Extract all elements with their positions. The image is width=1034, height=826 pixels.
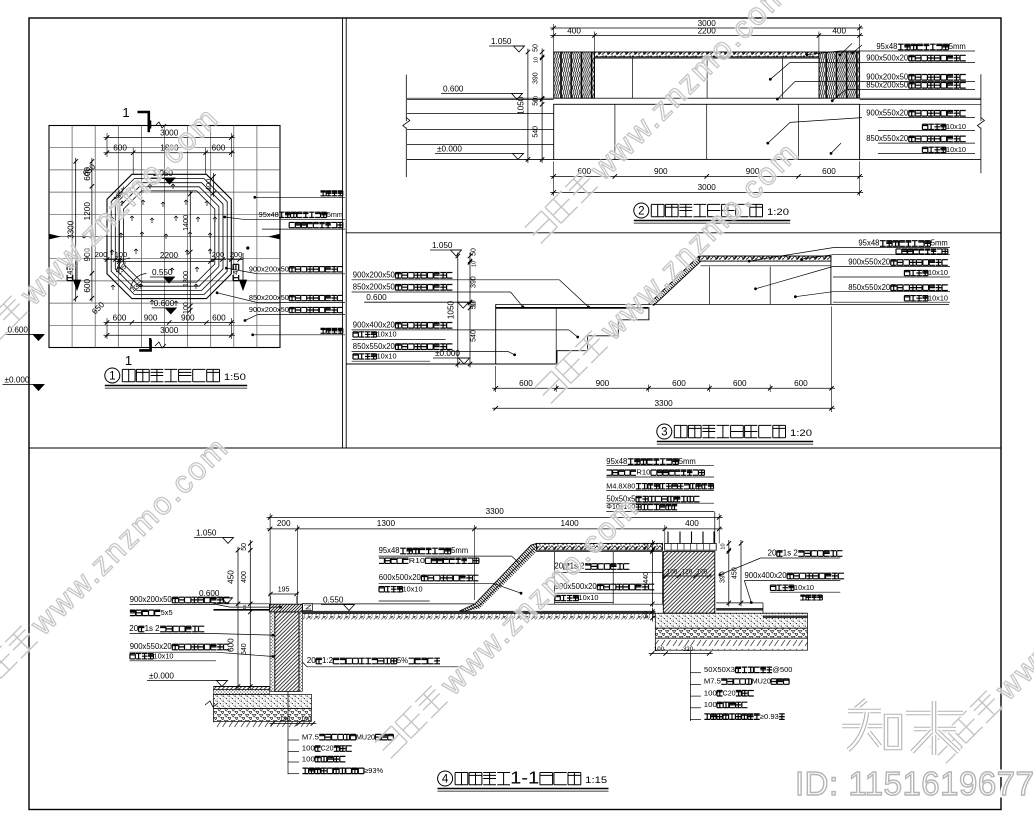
sec top dims	[267, 516, 723, 518]
svg-text:900x200x50: 900x200x50	[249, 305, 289, 314]
svg-text:0.600: 0.600	[443, 84, 464, 93]
small leader dots top right wood block	[839, 54, 842, 57]
svg-text:600: 600	[113, 313, 127, 322]
side bottom dims	[492, 387, 835, 389]
svg-text:900x200x50: 900x200x50	[353, 271, 396, 280]
svg-text:R10: R10	[636, 468, 650, 477]
svg-text:850x550x20: 850x550x20	[353, 342, 396, 351]
svg-text:20: 20	[307, 656, 317, 665]
svg-text:@500: @500	[772, 665, 792, 674]
svg-text:95x48: 95x48	[379, 546, 400, 555]
svg-text:5mm: 5mm	[451, 546, 468, 555]
svg-text:100: 100	[667, 569, 678, 576]
svg-text:10x10: 10x10	[377, 352, 397, 361]
sec pier planks comb	[665, 543, 717, 550]
svg-text:10x10: 10x10	[579, 593, 599, 602]
svg-text:400: 400	[685, 519, 699, 528]
plan left outside levels	[33, 335, 44, 341]
svg-text:600: 600	[83, 167, 92, 181]
svg-text:20: 20	[768, 549, 778, 558]
svg-text:600: 600	[212, 144, 226, 153]
svg-text:1s 2: 1s 2	[145, 624, 160, 633]
svg-text:1s 2: 1s 2	[783, 549, 798, 558]
svg-text:2: 2	[638, 204, 644, 217]
svg-text:540: 540	[471, 330, 478, 342]
svg-text:5mm: 5mm	[327, 210, 343, 219]
plan paving grid	[71, 126, 73, 348]
side elev ground line	[346, 363, 557, 365]
elev break line left	[405, 75, 407, 121]
svg-text:5mm: 5mm	[931, 239, 948, 248]
plan right leader annotations	[253, 196, 256, 199]
svg-text:1.050: 1.050	[432, 241, 453, 250]
front elevation title	[634, 203, 649, 218]
svg-text:1400: 1400	[181, 215, 190, 231]
watermark tiles	[0, 99, 226, 373]
svg-text:≥93%: ≥93%	[364, 766, 383, 775]
plan title	[105, 368, 120, 383]
svg-text:100: 100	[654, 646, 665, 653]
svg-text:1:50: 1:50	[224, 372, 246, 382]
sec left vertical chains	[237, 547, 239, 690]
svg-text:600: 600	[519, 379, 533, 388]
svg-text:600: 600	[822, 167, 836, 176]
svg-text:3300: 3300	[486, 507, 505, 516]
plan inner vertical dims	[213, 173, 215, 197]
svg-text:600: 600	[83, 279, 92, 293]
svg-text:100: 100	[704, 688, 717, 697]
sec pier inner dim 100 120 100	[662, 575, 713, 577]
svg-text:390: 390	[720, 571, 727, 583]
svg-text:900x550x20: 900x550x20	[848, 258, 891, 267]
svg-text:900x550x20: 900x550x20	[130, 642, 173, 651]
plan edge axis arrows	[49, 234, 61, 240]
svg-text:95x48: 95x48	[876, 42, 897, 51]
svg-text:400: 400	[832, 26, 846, 35]
sec wall body	[275, 612, 299, 692]
plan view paving square	[49, 126, 280, 348]
svg-text:±0.000: ±0.000	[435, 349, 460, 358]
svg-text:100: 100	[704, 700, 717, 709]
plan corner arcs 135 deg	[113, 187, 124, 200]
side bench body	[495, 304, 497, 364]
svg-text:10: 10	[721, 543, 727, 549]
sec ramp band	[460, 543, 537, 611]
svg-text:MU20: MU20	[752, 677, 771, 686]
elev wood plank top band	[595, 52, 820, 57]
svg-text:900x400x20: 900x400x20	[745, 571, 788, 580]
svg-text:600: 600	[794, 379, 808, 388]
svg-text:1050: 1050	[446, 300, 455, 319]
plan mid small dims	[104, 259, 123, 261]
svg-text:0.600: 0.600	[199, 589, 220, 598]
svg-text:0.600: 0.600	[366, 293, 387, 302]
svg-text:1:15: 1:15	[585, 775, 607, 785]
elev levels	[514, 46, 525, 52]
svg-text:10: 10	[472, 300, 478, 306]
svg-text:850x550x20: 850x550x20	[866, 134, 909, 143]
svg-text:450: 450	[227, 570, 236, 584]
svg-text:C20: C20	[321, 744, 334, 753]
svg-text:200: 200	[277, 519, 291, 528]
plan left dim chains	[91, 158, 93, 302]
plan inner horizontal dim 2200	[116, 261, 214, 263]
svg-text:1: 1	[125, 353, 132, 368]
svg-text:10: 10	[534, 96, 540, 102]
svg-text:900x550x20: 900x550x20	[866, 109, 909, 118]
sec pier bolts	[667, 532, 669, 544]
svg-text:200: 200	[230, 250, 243, 259]
svg-text:95x48: 95x48	[606, 457, 627, 466]
sec levels	[223, 537, 234, 543]
svg-text:100: 100	[302, 744, 315, 753]
svg-text:3300: 3300	[654, 399, 673, 408]
sec plateau joints	[554, 552, 556, 604]
sec pier foundation layers	[655, 613, 807, 628]
svg-text:600: 600	[733, 379, 747, 388]
side levels	[451, 250, 462, 256]
elev mid band joints	[595, 58, 820, 98]
svg-text:10: 10	[472, 261, 478, 267]
svg-text:±0.000: ±0.000	[5, 376, 30, 385]
svg-text:540: 540	[241, 643, 248, 655]
svg-text:10x10: 10x10	[946, 122, 966, 131]
svg-text:10x10: 10x10	[928, 293, 948, 302]
svg-text:900x400x20: 900x400x20	[353, 321, 396, 330]
svg-text:3: 3	[661, 425, 667, 438]
svg-text:4: 4	[442, 772, 449, 785]
svg-text:10: 10	[534, 57, 540, 63]
svg-text:5%: 5%	[397, 656, 408, 665]
svg-text:900x200x50: 900x200x50	[249, 264, 289, 273]
svg-text:1-1: 1-1	[510, 769, 539, 788]
svg-text:100: 100	[697, 569, 708, 576]
sec right steps	[716, 602, 763, 604]
sec plateau ground continuation	[537, 603, 664, 605]
svg-text:50: 50	[644, 543, 650, 549]
side ramp band	[648, 256, 699, 304]
elev left wood block	[554, 52, 595, 98]
svg-text:1:20: 1:20	[790, 428, 812, 438]
svg-text:850x200x50: 850x200x50	[353, 283, 396, 292]
svg-text:1: 1	[109, 369, 115, 382]
elev break line right	[980, 74, 982, 121]
svg-text:100: 100	[302, 754, 315, 763]
svg-text:850x200x50: 850x200x50	[866, 81, 909, 90]
svg-text:R10: R10	[409, 556, 425, 565]
svg-text:540: 540	[533, 126, 540, 138]
side left vertical dims	[457, 253, 459, 368]
svg-text:10x10: 10x10	[154, 651, 174, 660]
svg-text:1400: 1400	[560, 519, 579, 528]
svg-text:1:20: 1:20	[767, 207, 789, 217]
sec plateau band	[537, 543, 663, 550]
svg-text:20: 20	[129, 624, 139, 633]
svg-text:120: 120	[682, 569, 693, 576]
svg-text:M7.5: M7.5	[302, 732, 319, 741]
sec drain box	[303, 604, 313, 611]
svg-text:200: 200	[212, 250, 225, 259]
svg-text:50: 50	[241, 543, 248, 551]
svg-text:10x10: 10x10	[794, 583, 814, 592]
svg-text:400: 400	[204, 179, 213, 191]
elev plinth	[554, 104, 860, 159]
elev top dims	[550, 27, 863, 29]
svg-text:1300: 1300	[181, 271, 190, 287]
svg-text:390: 390	[471, 276, 478, 288]
sec left paving lines	[214, 603, 270, 605]
svg-text:600: 600	[113, 144, 127, 153]
plan plant arrows	[148, 184, 152, 189]
svg-text:10x10: 10x10	[928, 268, 948, 277]
svg-text:95x48: 95x48	[259, 210, 279, 219]
sec pier body	[663, 552, 715, 614]
svg-text:95x48: 95x48	[858, 239, 879, 248]
plan top dims	[104, 137, 235, 139]
elev ground lines left	[407, 97, 554, 99]
svg-text:390: 390	[533, 72, 540, 84]
svg-text:400: 400	[567, 26, 581, 35]
svg-text:600: 600	[672, 379, 686, 388]
svg-text:±0.000: ±0.000	[437, 144, 462, 153]
svg-text:5mm: 5mm	[949, 42, 966, 51]
svg-text:900: 900	[596, 379, 610, 388]
svg-text:50X50X3: 50X50X3	[704, 665, 735, 674]
svg-text:900x200x50: 900x200x50	[130, 595, 173, 604]
sec right paving	[313, 603, 475, 605]
svg-text:600: 600	[212, 313, 226, 322]
svg-text:1.050: 1.050	[491, 37, 512, 46]
svg-text:5x5: 5x5	[161, 608, 173, 617]
svg-text:≥0.93: ≥0.93	[760, 712, 779, 721]
svg-text:0.600: 0.600	[154, 299, 175, 308]
side plateau band	[699, 256, 831, 261]
sec left legend	[287, 691, 289, 774]
svg-text:2200: 2200	[160, 251, 179, 260]
svg-text:195: 195	[278, 587, 290, 594]
svg-text:10x10: 10x10	[377, 330, 397, 339]
elev bottom dims	[550, 175, 863, 177]
svg-text:3000: 3000	[698, 183, 717, 192]
svg-text:100: 100	[301, 716, 312, 723]
svg-text:MU20: MU20	[356, 732, 375, 741]
svg-text:100: 100	[115, 250, 128, 259]
plan bottom dims	[104, 322, 235, 324]
svg-text:50: 50	[471, 248, 478, 256]
svg-text:ID: 1151619677: ID: 1151619677	[795, 765, 1034, 802]
sec wall cap	[270, 604, 303, 612]
elev right wood block	[819, 52, 860, 98]
side steps	[557, 307, 649, 364]
elev ground lines right	[860, 97, 981, 99]
svg-text:M7.5: M7.5	[704, 677, 721, 686]
sec right legend	[689, 651, 691, 721]
svg-text:850x200x50: 850x200x50	[249, 293, 289, 302]
svg-text:850x550x20: 850x550x20	[848, 283, 891, 292]
svg-text:1300: 1300	[377, 519, 396, 528]
svg-text:320: 320	[683, 646, 694, 653]
side ground line right	[648, 303, 949, 305]
sec wall 195 dim	[269, 593, 299, 595]
viewport dividers	[342, 18, 344, 448]
flower-bed octagon seat rings	[107, 174, 231, 298]
svg-text:10x10: 10x10	[946, 145, 966, 154]
svg-text:5mm: 5mm	[679, 457, 696, 466]
svg-text:1:2: 1:2	[322, 656, 333, 665]
svg-text:900: 900	[144, 313, 158, 322]
svg-text:0.550: 0.550	[323, 596, 344, 605]
svg-text:M4.8X80: M4.8X80	[606, 481, 635, 490]
svg-text:450: 450	[732, 567, 739, 579]
svg-text:C20: C20	[723, 688, 736, 697]
svg-text:600x500x20: 600x500x20	[379, 573, 422, 582]
plan levels	[164, 178, 175, 184]
svg-text:900: 900	[654, 167, 668, 176]
side bench top	[496, 303, 649, 305]
svg-text:440: 440	[643, 572, 650, 584]
svg-text:400: 400	[241, 571, 248, 583]
sec left found dims	[269, 723, 316, 725]
svg-text:±0.000: ±0.000	[149, 672, 174, 681]
svg-text:3000: 3000	[160, 326, 179, 335]
svg-text:50: 50	[643, 611, 650, 618]
watermark logo 知末 bottom right	[842, 700, 963, 755]
stair direction arrows	[73, 253, 80, 290]
sec left foundation	[214, 686, 270, 688]
svg-text:50: 50	[533, 44, 540, 52]
svg-text:900x500x20: 900x500x20	[866, 53, 909, 62]
side plateau body	[830, 256, 832, 304]
svg-text:1.050: 1.050	[196, 528, 217, 537]
svg-text:180: 180	[280, 716, 291, 723]
elev left vertical dims	[527, 49, 529, 163]
section title	[438, 771, 453, 786]
side elevation title	[657, 424, 672, 439]
sec pier found dims	[649, 653, 713, 655]
svg-text:10x10: 10x10	[403, 584, 423, 593]
svg-text:0.550: 0.550	[152, 268, 173, 277]
svg-text:100: 100	[183, 302, 190, 314]
sec right chains	[651, 540, 653, 608]
svg-text:1: 1	[122, 105, 129, 120]
